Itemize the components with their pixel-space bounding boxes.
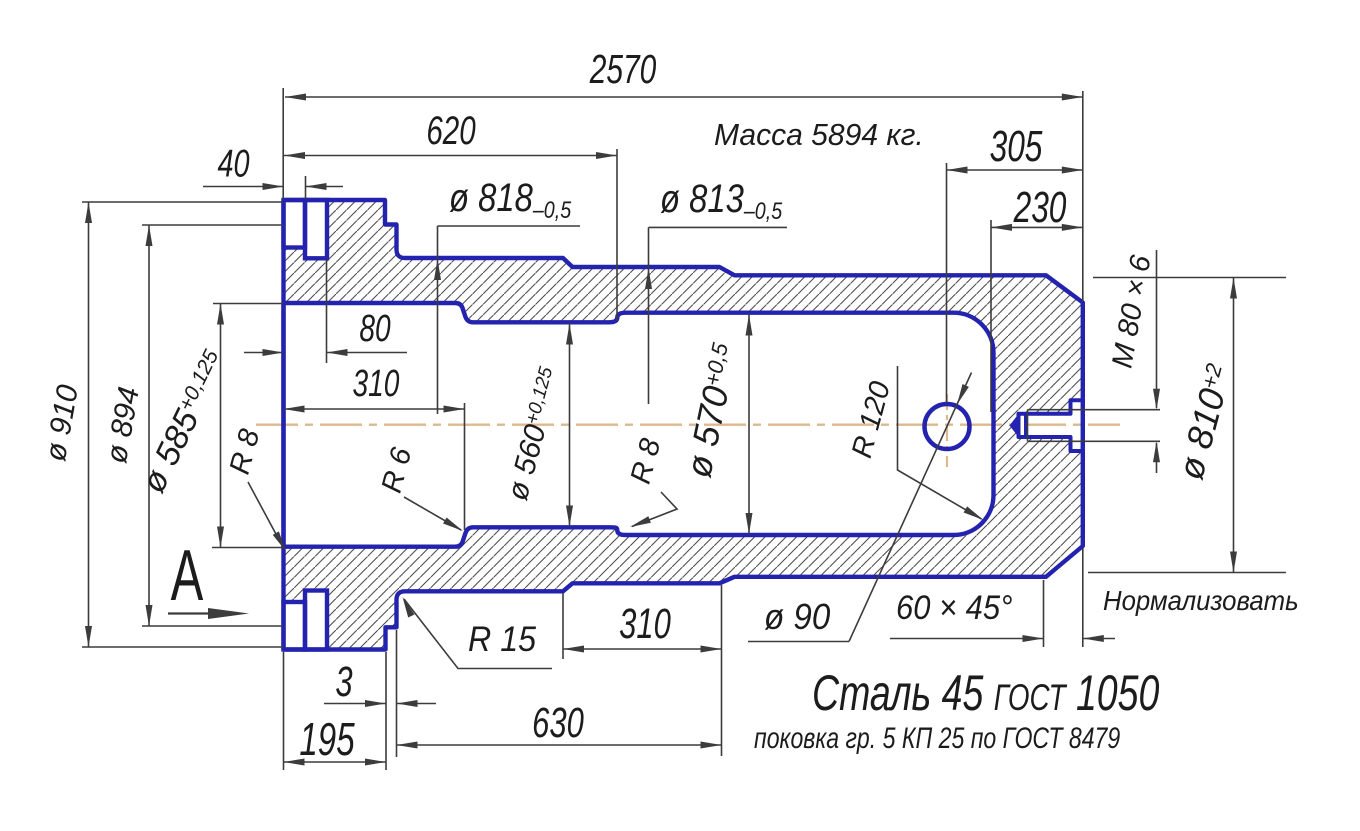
dim 630 left arrow (397, 742, 418, 749)
dim 195 left arrow (284, 759, 305, 766)
thread major line lower (1028, 440, 1161, 442)
leader R8 left (248, 482, 284, 549)
dim 2570 line (285, 96, 1083, 98)
svg-text:620: 620 (426, 109, 476, 153)
leader R120 arrow (964, 506, 986, 523)
centerline hole d90 vertical (946, 394, 948, 467)
ext line 40 right (305, 176, 307, 199)
flange rim recess bottom outline (284, 602, 306, 650)
dim d810 top arrow (1230, 278, 1237, 299)
ext line 195 left (283, 652, 285, 770)
dim d910 text (39, 382, 85, 464)
dim 80 right arrow (327, 349, 348, 356)
dim 305 line (947, 169, 1083, 171)
svg-text:195: 195 (299, 715, 355, 765)
dim 60x45 right arrow (1083, 635, 1104, 642)
dim 310 top right arrow (444, 406, 465, 413)
dim d570 text (677, 339, 745, 481)
dim d570 line (748, 314, 750, 535)
leader R8 mid (632, 492, 677, 527)
flange slot top (305, 200, 327, 258)
svg-text:Масса 5894 кг.: Масса 5894 кг. (714, 118, 924, 153)
dim 620 left arrow (284, 152, 305, 159)
ext line 3 right (396, 630, 398, 757)
dim 60x45 line left (890, 638, 1044, 640)
thread major line upper (1028, 409, 1161, 411)
ext line 230 left (990, 220, 992, 412)
dim M80 line lower (1156, 443, 1158, 473)
svg-text:Нормализовать: Нормализовать (1103, 585, 1299, 616)
dim d585 bottom arrow (217, 527, 224, 548)
ext line 60x45 right (1082, 548, 1084, 647)
dim d910 line (88, 202, 90, 647)
ext line 60x45 left (1043, 580, 1045, 647)
leader R120 (898, 366, 982, 519)
part outer profile outline (284, 200, 1083, 650)
flange rim recess top (284, 200, 306, 248)
leader R15 arrow (399, 596, 414, 618)
dim M80 upper arrow (1153, 389, 1160, 410)
hole d90 outline (925, 404, 970, 449)
ext line d894 top (142, 224, 283, 226)
dim d894 line (148, 225, 150, 626)
ext line 80 right (326, 259, 328, 363)
dim 60x45 line right (1083, 638, 1115, 640)
svg-text:630: 630 (532, 698, 584, 746)
dim R6 text (376, 443, 419, 496)
dim 230 right arrow (1062, 224, 1083, 231)
dim 230 line (991, 226, 1083, 228)
dim d910 top arrow (85, 202, 92, 223)
leader d813 arrow (645, 268, 652, 289)
svg-text:310: 310 (619, 599, 671, 647)
dim 620 right arrow (596, 152, 617, 159)
ext line left face top (282, 88, 284, 199)
thread tip fill (1010, 413, 1020, 439)
dim 3 right arrow (397, 700, 418, 707)
svg-text:40: 40 (217, 142, 249, 185)
dim d560 text (501, 364, 568, 504)
flange slot top outline (305, 200, 327, 258)
ext line d810 bottom (1088, 572, 1286, 574)
dim d585 text (134, 345, 235, 498)
svg-text:60 × 45°: 60 × 45° (896, 589, 1012, 627)
dim d585 line (220, 304, 222, 548)
dim 305 right arrow (1062, 167, 1083, 174)
svg-text:поковка гр. 5 КП 25 по ГОСТ 84: поковка гр. 5 КП 25 по ГОСТ 8479 (754, 721, 1120, 755)
leader d813 vertical (648, 227, 650, 404)
dim d585 top arrow (217, 304, 224, 325)
svg-text:ø 90: ø 90 (764, 598, 830, 638)
dim 310 top left arrow (284, 406, 305, 413)
dim d910 bottom arrow (85, 626, 92, 647)
inner cavity outline (284, 303, 994, 547)
leader d818 shelf (438, 225, 581, 227)
leader d90 line (849, 373, 972, 642)
dim 310 bottom left arrow (563, 646, 584, 653)
dim 80 left arrow (263, 349, 284, 356)
svg-text:R 15: R 15 (468, 621, 536, 660)
thread hole M80 outline (1019, 400, 1083, 451)
svg-text:230: 230 (1013, 183, 1067, 232)
dim 310 bottom right arrow (701, 646, 722, 653)
dim 620 line (284, 155, 617, 157)
svg-text:2570: 2570 (589, 46, 656, 92)
dim 2570 left arrow (285, 94, 306, 101)
svg-text:310: 310 (353, 363, 400, 405)
ext line 305 left (946, 163, 948, 403)
thread major line end (1027, 410, 1029, 442)
thread hole M80 void (1019, 400, 1083, 451)
svg-text:A: A (171, 536, 204, 617)
leader d90 shelf (748, 641, 849, 643)
dim d570 bottom arrow (746, 513, 753, 534)
ext line d585 top (213, 303, 283, 305)
leader R15 (404, 599, 552, 669)
inner cavity void (284, 303, 994, 547)
svg-text:3: 3 (335, 657, 352, 705)
dim 3 tail right (397, 703, 437, 705)
dim d810 line (1233, 278, 1235, 573)
dim 40 right arrow (306, 183, 327, 190)
leader R6 (404, 497, 461, 530)
centerline main axis (256, 424, 1120, 426)
dim 60x45 left arrow (1023, 635, 1044, 642)
dim M80 line upper (1156, 250, 1158, 408)
dim M80 text (1106, 252, 1157, 370)
dim 80 tail left (244, 352, 284, 354)
leader d818 vertical (437, 226, 439, 414)
dim 40 tail left (203, 186, 284, 188)
leader R6 arrow (443, 517, 465, 534)
dim 3 left arrow (365, 700, 386, 707)
svg-text:305: 305 (990, 122, 1043, 171)
dim 305 left arrow (947, 167, 968, 174)
dim 310 top line (284, 408, 465, 410)
dim 630 right arrow (701, 742, 722, 749)
dim 195 line (284, 761, 387, 763)
flange slot bottom outline (305, 591, 327, 650)
dim d560 top arrow (566, 324, 573, 345)
hole d90 void (925, 404, 970, 449)
ext line d894 bottom (142, 625, 283, 627)
leader R8 left arrow (273, 531, 289, 553)
ext line d910 bottom (82, 646, 283, 648)
flange rim recess top outline (284, 200, 306, 248)
dim d560 bottom arrow (566, 506, 573, 527)
dim 40 left arrow (263, 183, 284, 190)
leader d90 arrow (954, 384, 969, 406)
dim d560 line (569, 323, 571, 528)
flange rim recess bottom (284, 602, 306, 650)
ext line right face top (1082, 91, 1084, 301)
dim R120 text (846, 378, 897, 461)
view arrow A head (208, 608, 249, 619)
ext line d910 top (82, 201, 283, 203)
dim 40 tail right (306, 186, 344, 188)
ext line 620 right (616, 149, 618, 321)
leader d818 arrow (434, 259, 441, 280)
ext line 310 bottom right (721, 585, 723, 756)
leader d813 shelf (649, 226, 788, 228)
dim 2570 right arrow (1062, 94, 1083, 101)
part body hatched section (284, 200, 1083, 650)
dim 230 left arrow (991, 224, 1012, 231)
dim 3 tail left (324, 703, 386, 705)
dim d810 text (1170, 360, 1240, 484)
thread end line (1024, 414, 1028, 437)
dim d894 bottom arrow (146, 605, 153, 626)
svg-text:Сталь 45 ГОСТ 1050: Сталь 45 ГОСТ 1050 (812, 666, 1160, 721)
view arrow A line (168, 612, 215, 614)
dim d894 top arrow (146, 225, 153, 246)
dim 310 bottom line (563, 648, 722, 650)
dim 195 right arrow (365, 759, 386, 766)
dim 80 tail right (327, 352, 408, 354)
dim d894 text (100, 384, 146, 465)
ext line 310 bottom left (562, 593, 564, 659)
dim M80 lower arrow (1153, 441, 1160, 462)
dim R8 mid text (625, 435, 668, 487)
leader R8 mid arrow (629, 516, 651, 530)
dim d570 top arrow (746, 315, 753, 336)
ext line d585 bottom (212, 547, 283, 549)
flange slot bottom (305, 591, 327, 650)
ext line 310 top right (464, 403, 466, 530)
dim R8 left text (224, 426, 267, 478)
dim d810 bottom arrow (1230, 552, 1237, 573)
svg-text:80: 80 (359, 308, 391, 350)
ext line d810 top (1093, 277, 1286, 279)
ext line 3 left (385, 652, 387, 770)
dim 630 line (397, 744, 722, 746)
